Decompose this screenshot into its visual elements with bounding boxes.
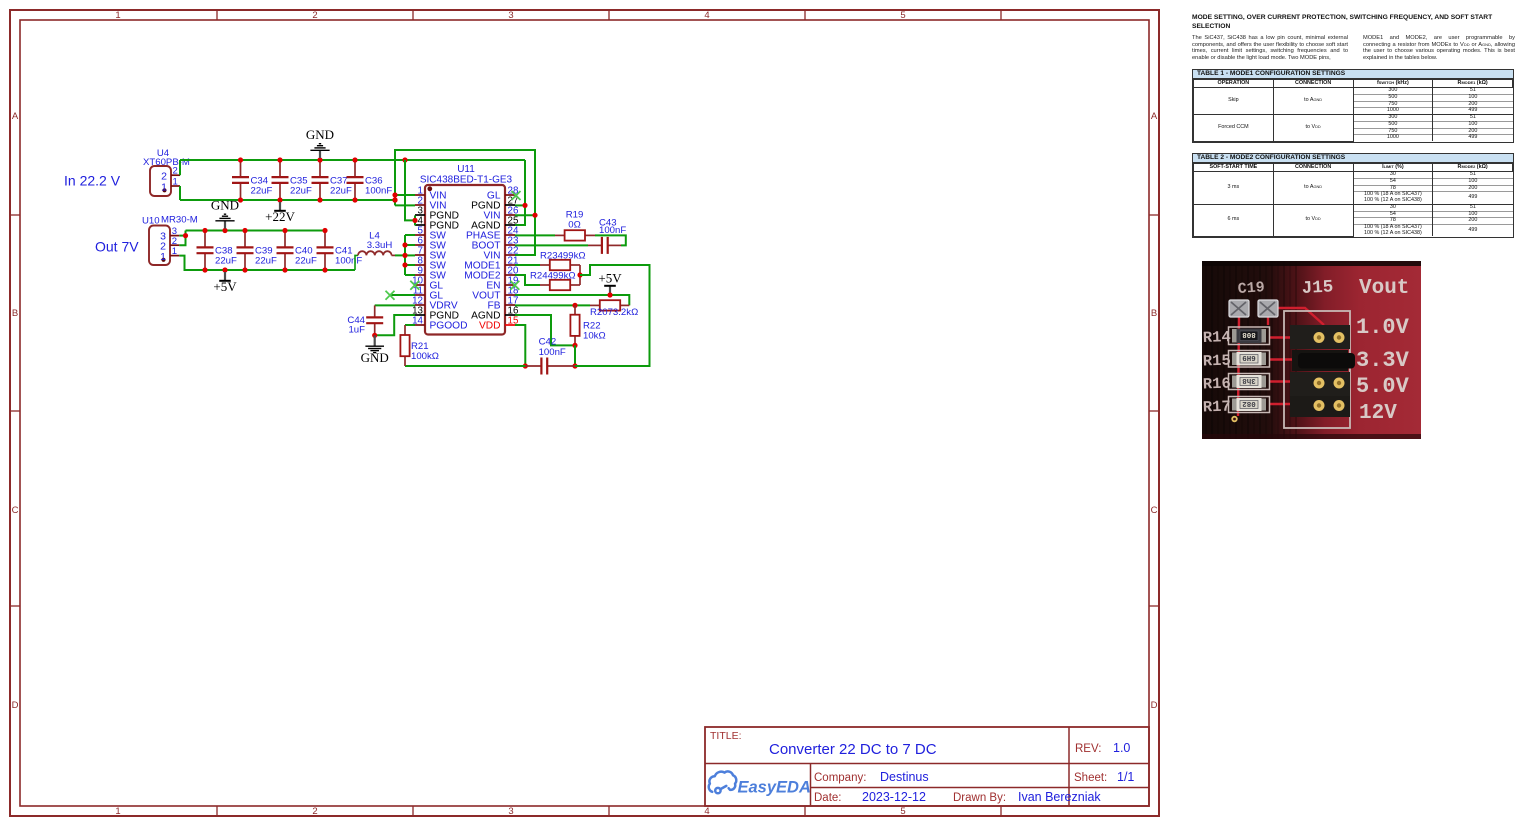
svg-text:Converter 22 DC to 7 DC: Converter 22 DC to 7 DC (769, 741, 937, 758)
svg-text:1: 1 (115, 806, 120, 817)
svg-text:R17: R17 (1203, 398, 1232, 417)
svg-text:GND: GND (306, 127, 334, 142)
wire SW pin y=265 (405, 264, 415, 266)
no-connect X pin 28 GL (512, 191, 521, 200)
svg-text:PGOOD: PGOOD (430, 321, 468, 332)
svg-text:VDD: VDD (479, 321, 501, 332)
svg-text:R16: R16 (1203, 375, 1232, 394)
junction FB node (572, 303, 577, 308)
svg-text:Vout: Vout (1359, 277, 1409, 300)
U11 pin 20 MODE2 (464, 265, 519, 281)
wire pin1 VIN (395, 194, 415, 196)
resistor R24 499k (540, 280, 580, 290)
wire MODE1 pin21 to R23 (515, 264, 540, 266)
capacitor C36 (347, 160, 364, 200)
wire PGND pin13 (375, 315, 415, 335)
svg-text:100kΩ: 100kΩ (411, 351, 439, 362)
svg-text:22uF: 22uF (330, 186, 352, 197)
U11 pin 11 GL (413, 285, 444, 301)
svg-text:22uF: 22uF (290, 186, 312, 197)
svg-text:12V: 12V (1359, 402, 1397, 425)
svg-text:2023-12-12: 2023-12-12 (862, 790, 926, 804)
capacitor C41 (317, 231, 334, 271)
svg-text:XT60PB-M: XT60PB-M (143, 157, 190, 168)
svg-text:1: 1 (173, 176, 178, 187)
junction +5V bus x=225 (222, 267, 227, 272)
svg-text:1.0: 1.0 (1113, 741, 1130, 755)
svg-text:808: 808 (1242, 330, 1256, 338)
wire PGND pins 3-4 link (414, 215, 416, 225)
wire U4 pin2 to GND bus (179, 160, 181, 175)
svg-text:C19: C19 (1237, 279, 1265, 298)
U11 pin 9 SW (415, 265, 446, 281)
resistor R23 499k (540, 260, 580, 270)
svg-text:3.3uH: 3.3uH (367, 240, 393, 251)
junction bottom bus x=575 (572, 363, 577, 368)
wire SW bus vertical (404, 235, 406, 275)
junction bottom bus x=525 (523, 363, 528, 368)
svg-text:+5V: +5V (598, 270, 622, 285)
junction x=395 y=195 (392, 192, 397, 197)
power flag +5V right (598, 270, 622, 293)
junction R23/R24 (577, 272, 582, 277)
junction +22V bus x=395 (392, 197, 397, 202)
svg-text:1.0V: 1.0V (1356, 315, 1410, 340)
svg-text:REV:: REV: (1075, 743, 1101, 755)
wire GND bus top (y=160) (180, 159, 525, 161)
junction pin27 (522, 203, 527, 208)
junction +22V bus x=355 (352, 197, 357, 202)
wire top loop y=150 (395, 150, 535, 255)
U11 pin 24 PHASE (466, 225, 519, 241)
wire GND bus 2 (y=230.5) (186, 230, 326, 232)
svg-text:D: D (1151, 700, 1158, 711)
wire pin 26 VIN (515, 214, 535, 216)
svg-text:1: 1 (160, 251, 166, 263)
wire pin 27 PGND (515, 204, 525, 206)
U11 pin 1 VIN (415, 185, 446, 201)
U11 pin 25 AGND (471, 215, 519, 231)
svg-text:GND: GND (211, 197, 239, 212)
junction SW bus y=255.4 (402, 253, 407, 258)
junction top bus x=405 (402, 157, 407, 162)
svg-text:U10: U10 (142, 216, 160, 227)
junction GND bus2 x=225 (222, 228, 227, 233)
wire U4 pin1 down (179, 186, 181, 200)
junction R22 bottom (572, 343, 577, 348)
wire mode node to right loop (575, 265, 650, 366)
U11 pin 15 VDD (479, 315, 519, 331)
svg-text:D: D (12, 700, 19, 711)
wire GND drop to PGND pins (405, 160, 415, 220)
svg-text:4: 4 (704, 806, 709, 817)
svg-text:In 22.2 V: In 22.2 V (64, 173, 121, 189)
svg-text:2: 2 (312, 10, 317, 21)
wire SW pin y=245 (405, 244, 415, 246)
svg-text:082: 082 (1242, 399, 1256, 407)
svg-text:1: 1 (115, 10, 120, 21)
junction x=395 y=200 (392, 197, 397, 202)
svg-text:R14: R14 (1203, 328, 1232, 347)
svg-text:5.0V: 5.0V (1356, 374, 1410, 399)
U11 pin 22 VIN (484, 245, 519, 261)
resistor R20 73.2k (590, 300, 629, 310)
svg-text:EasyEDA: EasyEDA (738, 779, 811, 797)
junction +5V bus x=245 (242, 267, 247, 272)
ground flag GND top bank (306, 127, 334, 158)
U11 pin 8 SW (415, 255, 446, 271)
junction +22V bus x=280 (277, 197, 282, 202)
capacitor C35 (272, 160, 289, 200)
junction SW bus y=245 (402, 242, 407, 247)
junction +5V bus x=205 (202, 267, 207, 272)
svg-text:3: 3 (508, 10, 513, 21)
junction pin26 (532, 213, 537, 218)
ground flag GND bank2 (211, 197, 239, 228)
svg-text:2: 2 (312, 806, 317, 817)
svg-text:1: 1 (161, 181, 167, 193)
svg-text:100nF: 100nF (365, 186, 392, 197)
wire SW pin y=255.4 (405, 254, 415, 256)
wire VDRV pin12 (375, 304, 415, 306)
svg-text:Date:: Date: (814, 792, 842, 804)
junction top bus x=280 (277, 157, 282, 162)
svg-text:3h8: 3h8 (1242, 376, 1256, 384)
svg-text:B: B (12, 308, 18, 319)
junction SW bus y=265 (402, 262, 407, 267)
wire SW pin y=235 (405, 234, 415, 236)
capacitor C40 (277, 231, 294, 271)
junction +22V bus x=320 (317, 197, 322, 202)
junction GND bus2 x=325 (322, 228, 327, 233)
U11 pin 23 BOOT (472, 235, 519, 251)
wire U10 pin2 link (179, 231, 185, 246)
U11 pin 28 GL (487, 185, 519, 201)
svg-text:1uF: 1uF (348, 325, 365, 336)
svg-text:1: 1 (172, 246, 177, 257)
svg-text:R15: R15 (1203, 352, 1232, 371)
svg-text:Out 7V: Out 7V (95, 239, 139, 255)
junction top bus x=355 (352, 157, 357, 162)
wire AGND pin16 (515, 315, 575, 345)
svg-text:22uF: 22uF (215, 256, 237, 267)
junction U10 pin3 (183, 233, 188, 238)
U11 pin 27 PGND (471, 195, 518, 211)
U11 pin 5 SW (415, 225, 446, 241)
wire L4 to SW bus (395, 254, 405, 256)
svg-text:5: 5 (900, 10, 905, 21)
svg-text:Company:: Company: (814, 772, 866, 784)
svg-text:Sheet:: Sheet: (1074, 772, 1107, 784)
svg-text:10kΩ: 10kΩ (583, 331, 606, 342)
U11 pin 18 VOUT (472, 285, 519, 301)
junction top bus x=240.5 (238, 157, 243, 162)
U11 pin1 marker dot (427, 186, 432, 191)
junction C44 bottom (372, 333, 377, 338)
resistor R19 0ohm (555, 230, 595, 240)
no-connect X pin 10 GL (410, 281, 419, 290)
junction PGND tee (412, 218, 417, 223)
svg-text:GND: GND (361, 350, 389, 365)
capacitor C34 (232, 160, 249, 200)
svg-text:4: 4 (704, 10, 709, 21)
no-connect X pin 19 EN (510, 281, 519, 290)
power flag +5V bank2 (213, 272, 237, 294)
wire VOUT pin18 (515, 295, 629, 305)
svg-text:A: A (12, 111, 19, 122)
wire pin 11 GL stub (391, 294, 415, 296)
wire R23-R24 join vertical (579, 265, 581, 285)
inductor L4 3.3uH (355, 251, 395, 270)
capacitor C38 (197, 231, 214, 271)
svg-text:0Ω: 0Ω (568, 220, 581, 231)
svg-text:Ivan Berezniak: Ivan Berezniak (1018, 790, 1101, 804)
svg-text:Destinus: Destinus (880, 770, 929, 784)
junction +5V bus x=285 (282, 267, 287, 272)
wire GND bus right segment (515, 160, 525, 225)
svg-text:J15: J15 (1301, 277, 1334, 299)
svg-text:22uF: 22uF (251, 186, 273, 197)
svg-text:100nF: 100nF (335, 256, 362, 267)
capacitor C42 100nF (525, 358, 575, 375)
wire PHASE pin24 to R19 (515, 234, 555, 236)
svg-text:6H9: 6H9 (1242, 353, 1256, 361)
svg-text:TITLE:: TITLE: (710, 730, 742, 742)
wire R19 to C43 right (595, 235, 626, 245)
wire pin2 VIN (395, 204, 415, 206)
connector U10 MR30-M (149, 226, 179, 266)
svg-text:R2073.2kΩ: R2073.2kΩ (590, 307, 638, 318)
capacitor C39 (237, 231, 254, 271)
svg-text:3.3V: 3.3V (1356, 348, 1410, 373)
svg-text:+22V: +22V (265, 209, 295, 224)
svg-text:B: B (1151, 308, 1157, 319)
wire bottom bus y=366 (405, 365, 525, 367)
svg-text:22uF: 22uF (295, 256, 317, 267)
svg-text:Drawn By:: Drawn By: (953, 792, 1006, 804)
wire U10 pin3 to bus (179, 235, 185, 237)
junction +5V bus x=325 (322, 267, 327, 272)
wire BOOT pin23 to C43 (515, 244, 588, 246)
wire SW pin y=275 (405, 274, 415, 276)
resistor R21 100k (400, 325, 409, 366)
capacitor C44 1uF (366, 305, 383, 335)
svg-text:R24499kΩ: R24499kΩ (530, 270, 576, 281)
svg-text:1/1: 1/1 (1117, 770, 1134, 784)
U11 pin 19 EN (486, 275, 518, 291)
wire PGOOD pin14 (405, 324, 415, 326)
svg-text:+5V: +5V (213, 279, 237, 294)
U11 pin 6 SW (415, 235, 446, 251)
capacitor C37 (312, 160, 329, 200)
junction GND bus2 x=245 (242, 228, 247, 233)
wire bottom bus right segment (575, 365, 650, 367)
U11 pin 17 FB (487, 295, 518, 311)
junction GND bus2 x=205 (202, 228, 207, 233)
wire VDD pin15 (515, 325, 525, 366)
svg-text:100nF: 100nF (539, 347, 566, 358)
U11 pin 10 GL (412, 275, 443, 291)
connector U4 XT60PB-M (150, 166, 180, 196)
U11 pin 13 PGND (412, 305, 459, 321)
junction top bus x=320 (317, 157, 322, 162)
U11 pin 14 PGOOD (412, 315, 467, 331)
svg-text:A: A (1151, 111, 1158, 122)
capacitor C43 100nF (588, 237, 621, 254)
resistor R22 10k (570, 305, 579, 345)
junction GND bus2 x=285 (282, 228, 287, 233)
U11 pin 2 VIN (415, 195, 446, 211)
U11 pin 12 VDRV (412, 295, 458, 311)
svg-text:100nF: 100nF (599, 225, 626, 236)
power flag +22V (265, 202, 295, 224)
svg-text:22uF: 22uF (255, 256, 277, 267)
wire MODE2 pin20 to R24 (515, 275, 540, 285)
svg-text:5: 5 (900, 806, 905, 817)
no-connect X pin 11 GL (386, 291, 395, 300)
junction +5V VOUT (607, 292, 612, 297)
wire FB pin17 (515, 304, 590, 306)
U11 pin 7 SW (415, 245, 446, 261)
wire +22V bus (y=200) (180, 199, 395, 201)
op-amp U11 SIC438BED-T1-GE3 body (425, 185, 505, 335)
wire U10 pin1 down (179, 256, 355, 270)
ground flag GND at C44 (361, 335, 389, 365)
junction +22V bus x=240.5 (238, 197, 243, 202)
svg-text:3: 3 (508, 806, 513, 817)
svg-text:SIC438BED-T1-GE3: SIC438BED-T1-GE3 (420, 174, 513, 185)
U11 pin 3 PGND (415, 205, 459, 221)
U11 pin 4 PGND (415, 215, 459, 231)
U11 pin 21 MODE1 (464, 255, 518, 271)
wire R22 bottom to GND bus (574, 345, 576, 366)
svg-text:C: C (12, 505, 19, 516)
svg-text:C: C (1151, 505, 1158, 516)
svg-text:MR30-M: MR30-M (161, 215, 198, 226)
U11 pin 26 VIN (484, 205, 519, 221)
U11 pin 16 AGND (471, 305, 519, 321)
svg-text:R23499kΩ: R23499kΩ (540, 250, 586, 261)
